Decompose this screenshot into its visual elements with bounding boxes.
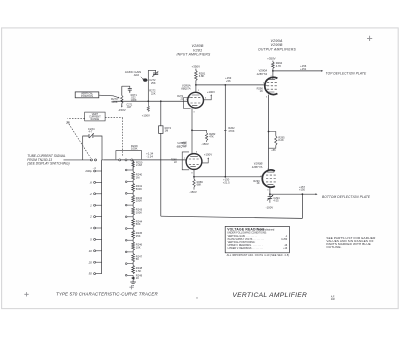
junction bus / feedback [160,100,162,102]
potentiometer R272 gain [143,78,147,81]
ladder tap contact [125,228,127,230]
svg-text:BOTTOM DEFLECTION PLATE: BOTTOM DEFLECTION PLATE [322,195,371,199]
switch SW240 input contact [90,159,92,161]
shield plate V280A [184,98,191,109]
svg-text:500K: 500K [136,187,142,191]
svg-text:250K: 250K [136,199,142,203]
svg-text:ALL IMPORTANT ADJ. ON PG 4-10: ALL IMPORTANT ADJ. ON PG 4-10 (SEE SEC. … [227,254,290,257]
ladder tap contact [125,239,127,241]
svg-text:1K: 1K [260,89,263,93]
wire plate A to V290A grid [196,84,265,86]
switch SW240 output contact [95,159,97,161]
svg-text:+100V: +100V [142,114,150,118]
junction plate output A [272,70,274,72]
tube V290B grids [266,172,276,185]
svg-text:+21.5: +21.5 [223,180,230,184]
svg-text:6BQ7A: 6BQ7A [177,144,186,148]
wire plate to V280A [195,85,197,93]
svg-text:500K: 500K [111,100,117,104]
svg-text:1K: 1K [256,181,259,185]
svg-text:+350V: +350V [192,64,201,68]
resistor R248 [132,265,135,274]
svg-text:.047: .047 [126,106,131,109]
svg-text:V290A: V290A [270,39,282,43]
resistor R273 stub [147,101,149,106]
junction divider top [224,84,226,86]
tube V280A envelope [188,92,204,108]
svg-text:12BY7A: 12BY7A [252,165,263,169]
registration mark bottom center [129,285,133,289]
svg-text:4.7K: 4.7K [276,64,282,68]
wire position leader [99,95,119,97]
svg-text:100K: 100K [136,210,142,214]
svg-text:+56: +56 [271,148,276,152]
switch contact position .6 [94,181,96,183]
svg-text:TYPE 570 CHARACTERISTIC-CURV: TYPE 570 CHARACTERISTIC-CURVE TRACER [56,291,158,296]
svg-text:ADJ: ADJ [134,73,140,77]
registration mark bottom left [24,292,28,296]
svg-text:INPUT AMPLIFIERS: INPUT AMPLIFIERS [177,53,211,57]
switch contact position 1 [94,204,96,206]
switch contact position 20 [94,261,96,263]
wire cathode B to V290B grid [194,176,263,178]
resistor R240 [132,172,135,181]
capacitor C234 trim arrow [89,134,93,138]
gain cal bracket [116,151,142,160]
svg-text:RANGE: RANGE [91,118,100,121]
svg-text:10: 10 [89,249,93,253]
wire plate into V290A [272,71,274,79]
svg-text:.6: .6 [89,181,92,185]
trimmer capacitor C273 [148,70,155,73]
svg-text:6.8K: 6.8K [199,74,205,78]
wire V290A cathode down [268,95,270,171]
shield plate V280B [182,152,189,170]
svg-text:2B: 2B [65,120,70,124]
svg-text:TOP DEFLECTION PLATE: TOP DEFLECTION PLATE [326,72,367,76]
svg-text:22K: 22K [151,91,156,95]
wire feedback riser [301,194,303,218]
svg-text:-100V: -100V [266,205,274,209]
svg-text:50K: 50K [136,222,141,226]
svg-text:UNDER FOLLOWING CONDITIONS:: UNDER FOLLOWING CONDITIONS: [227,231,267,234]
wire signal line to V280B grid [104,159,186,161]
svg-text:V280B: V280B [191,44,203,48]
svg-text:25K: 25K [136,234,141,238]
switch linkage dashed right [105,117,123,119]
ladder tap contact [125,204,127,206]
junction bus / R270 [121,100,123,102]
wire screen V280B to +150V [202,159,208,163]
trimmer capacitor C294 [269,194,271,196]
wire V280B cathode [193,169,195,176]
svg-text:+56: +56 [226,79,231,83]
resistor R243 [132,207,135,216]
svg-text:-1.34: -1.34 [147,154,154,158]
wire screen V280A to +100V [204,95,212,99]
svg-text:8.2K: 8.2K [278,138,284,142]
svg-text:+350V: +350V [267,56,276,60]
wire bottom deflection lead [270,193,316,195]
svg-text:470K: 470K [228,129,234,133]
junction bus / R272 [147,100,149,102]
svg-text:-150V: -150V [118,108,126,112]
svg-text:+150: +150 [299,188,306,192]
switch contact position 10 [94,250,96,252]
capacitor C270 bypass hook [122,86,130,88]
switch common bus wire [101,160,103,274]
svg-text:VERTICAL POSITIONING:: VERTICAL POSITIONING: [228,241,256,244]
potentiometer R270 [121,86,123,95]
svg-text:VERTICAL GAIN . . . . . .: VERTICAL GAIN . . . . . . . . . [228,235,257,238]
tube V280B grids [189,156,199,166]
svg-text:PLATE SUPPLY VOLTS . . . .: PLATE SUPPLY VOLTS . . . . . . . . . [228,238,265,241]
svg-text:2.2M: 2.2M [136,163,142,167]
wire feedback vertical [160,101,162,126]
svg-text:6BQ7A: 6BQ7A [181,87,190,91]
wire input signal to switch [64,159,91,161]
svg-text:+150V: +150V [204,152,212,156]
wire grid V290A [265,84,267,86]
resistor R294 [272,62,275,68]
svg-text:-150V: -150V [189,190,197,194]
ladder tap contact [125,263,127,265]
resistor R247 [132,254,135,263]
svg-text:POSITION: POSITION [81,95,93,98]
wire V280A cathode to V280B plate [191,108,193,153]
svg-text:2.5K: 2.5K [136,269,142,273]
svg-text:10K: 10K [136,245,141,249]
gain switch contact b [125,159,127,161]
svg-text:LOWER V. READINGS . . . .: LOWER V. READINGS . . . . . . . . . [228,247,264,250]
gain switch contact a [119,159,121,161]
resistor R242 [132,195,135,204]
resistor R281 [195,71,198,81]
svg-text:0-250: 0-250 [281,239,288,241]
tube V290A grids [267,79,277,92]
switch linkage dashed diagonal [67,122,90,158]
svg-text:.2: .2 [89,192,92,196]
svg-text:4-7: 4-7 [89,130,93,134]
switch contact position 2 [94,216,96,218]
svg-text:68K: 68K [197,183,202,187]
svg-text:A.F.: A.F. [331,296,335,299]
front panel box VERTICAL POSITION [75,92,99,98]
junction plate / coupling [195,84,197,86]
ladder tap contact [125,251,127,253]
svg-text:(SEE DISPLAY SWITCHING): (SEE DISPLAY SWITCHING) [27,162,69,166]
svg-text:1M: 1M [165,128,169,132]
wire ladder top [132,160,134,170]
svg-text:**: ** [196,297,198,301]
svg-text:2: 2 [89,215,92,219]
tube V280B envelope [186,154,202,170]
ladder tap contact [125,181,127,183]
tube V290B envelope [262,170,275,187]
main bus wire [113,100,188,102]
resistor R246 [132,242,135,251]
svg-text:20: 20 [88,260,93,264]
tube V280A grids [191,95,201,105]
svg-text:200μ: 200μ [84,169,92,173]
wire V290B cathode down [269,187,271,194]
switch linkage dashed left [67,117,84,119]
tube V290A envelope [265,77,278,94]
junction feedback takeoff [302,193,304,195]
ground symbol attenuator [130,282,136,285]
junction bypass top [268,131,270,133]
voltage readings box [225,226,289,252]
wire switch bus to signal line [102,159,104,161]
svg-text:12BY7A: 12BY7A [257,72,268,76]
svg-text:100K: 100K [131,98,137,102]
switch contact position 3 [94,227,96,229]
wire grid V280A [187,100,189,102]
resistor R286 [193,177,195,179]
resistor R295 bypass [269,132,276,136]
svg-text:VERTICAL AMPLIFIER: VERTICAL AMPLIFIER [232,292,307,299]
junction plate output B [269,193,271,195]
junction divider bottom [224,176,226,178]
resistor R274 box [159,126,163,134]
switch contact position .2 [94,193,96,195]
resistor R249b bottom [132,275,134,277]
capacitor C234 plates [89,134,93,138]
switch contact position 200μ [94,170,96,172]
resistor R245 [132,230,135,239]
ladder tap contact [125,193,127,195]
resistor R244 [132,218,135,227]
svg-text:5K: 5K [136,257,139,261]
resistor R282 [206,130,208,133]
wire R272 to bus [147,70,149,101]
svg-text:OUTLINE.: OUTLINE. [326,245,341,249]
svg-text:OUTPUT AMPLIFIERS: OUTPUT AMPLIFIERS [258,47,296,51]
wire bias branch [192,129,207,131]
svg-text:1M: 1M [136,175,140,179]
switch contact position 5 [94,238,96,240]
wire coupling divider [224,85,226,177]
svg-text:+151: +151 [300,67,307,71]
wire top deflection lead [273,70,322,72]
junction cathode node [193,176,195,178]
svg-text:-150V: -150V [201,142,209,146]
svg-text:+100V: +100V [207,90,215,94]
ladder tap contact [125,274,127,276]
svg-text:100K: 100K [131,147,138,151]
control box vert current range [85,112,105,121]
svg-text:UPPER V. READINGS . . . .: UPPER V. READINGS . . . . . . . . . [228,244,263,247]
switch contact position 50 [94,273,96,275]
ladder tap contact [125,216,127,218]
ladder tap contact [125,169,127,171]
svg-text:50: 50 [89,272,93,276]
junction cascode bias [191,129,193,131]
resistor R250 grid leak [132,160,134,161]
svg-text:4-25: 4-25 [273,199,279,203]
resistor R241 [132,183,135,192]
gain switch contact c [131,159,133,161]
registration mark top right [367,36,372,41]
svg-text:25K: 25K [151,81,156,85]
svg-text:1K: 1K [136,276,139,280]
capacitor C234 bypass loop [83,136,89,160]
wire feedback bottom [161,216,303,218]
svg-text:47K: 47K [209,135,214,139]
